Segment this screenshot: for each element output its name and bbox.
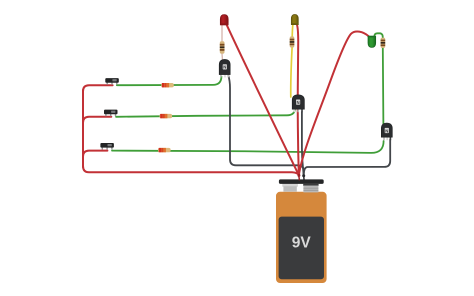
transistor Q2 (292, 95, 304, 112)
wire green row3 (switch S3 to Q3 base) (112, 141, 384, 153)
svg-text:N: N (297, 100, 300, 105)
battery positive terminal (282, 184, 298, 187)
wire red branch row2 (switch S2 to bus) (83, 117, 111, 123)
wire red bus vertical (battery + rail, left side) (83, 25, 369, 176)
wire black Q3 emitter to battery - (304, 140, 390, 175)
resistor R6 row3 330ohm (158, 148, 171, 152)
wire green row2 (switch S2 to Q2 base) (116, 108, 295, 117)
LED D1 red (220, 15, 229, 26)
battery body orange (276, 192, 327, 283)
switch S3 (100, 143, 114, 150)
wire black Q1 emitter to battery - (228, 76, 390, 175)
lead LED1 cathode to R1 (221, 24, 224, 62)
lead R1 to Q1 collector (221, 54, 224, 62)
svg-text:N: N (385, 128, 388, 133)
svg-text:N: N (223, 65, 226, 70)
transistor Q3 (381, 123, 392, 140)
svg-text:9V: 9V (292, 235, 312, 252)
battery negative terminal (303, 184, 318, 186)
resistor R4 row1 330ohm (161, 83, 174, 87)
wire red LED3 anode to battery + (299, 32, 369, 175)
wire red LED2 anode to battery + (297, 25, 299, 176)
wire green LED3 cathode arc to R3 (374, 33, 383, 39)
resistor R5 row2 330ohm (160, 114, 173, 118)
node battery + (red junction dot) (297, 174, 300, 180)
wire green row1 (switch S1 to Q1 base) (112, 33, 384, 153)
LED D3 green (inverted, legs up) (368, 36, 376, 48)
wire red LED1 anode to battery + (227, 25, 299, 175)
switch S2 (104, 110, 118, 117)
switch S1 (105, 78, 119, 85)
transistor Q1 (219, 59, 230, 77)
wire yellow R2 to Q2 collector (291, 47, 292, 97)
wire green R3 to Q3 collector (382, 48, 385, 126)
resistor R3 right of green LED (381, 38, 386, 48)
battery BT1 9V (276, 179, 327, 283)
LED D2 yellow (291, 15, 299, 25)
wire red bus bottom run to battery + (83, 166, 299, 175)
resistor R1 under red LED (220, 41, 225, 53)
wire black Q2 emitter to battery - (302, 112, 304, 175)
wire red branch row3 (switch S3 to bus) (83, 151, 107, 157)
battery dark label area (279, 217, 324, 280)
node battery - (black junction dot) (302, 174, 305, 180)
resistor R2 under yellow LED (290, 36, 295, 47)
battery cap bar (279, 179, 324, 184)
wire yellow LED2 cathode to R2 (291, 24, 293, 97)
wire red branch row1 (switch S1 to bus) (83, 85, 113, 91)
